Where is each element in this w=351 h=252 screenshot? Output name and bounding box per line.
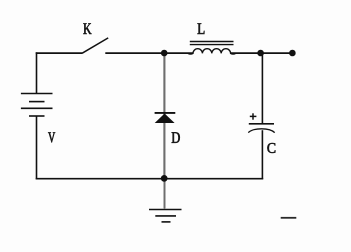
inductor L core line upper: [190, 41, 234, 43]
ground bar 2: [155, 215, 176, 217]
polarity plus sign horizontal: [250, 115, 257, 117]
node B junction dot: [257, 50, 264, 57]
wire diode branch vertical (soft): [163, 54, 166, 177]
label L: [198, 23, 205, 34]
label D: [172, 132, 180, 143]
inductor L core line lower: [190, 44, 234, 46]
inductor L winding: [188, 49, 236, 54]
wire inductor to output terminal: [231, 52, 293, 54]
ground bar 1: [149, 209, 182, 211]
capacitor C curved plate: [248, 129, 274, 133]
battery V long plate lower: [21, 107, 53, 109]
wire capacitor branch lower: [261, 130, 263, 179]
battery V long plate top: [21, 93, 53, 95]
wire capacitor branch upper: [261, 53, 263, 123]
wire battery bottom lead: [36, 116, 38, 179]
diode D triangle: [155, 114, 175, 124]
bottom junction dot: [161, 175, 168, 182]
label K: [83, 23, 91, 34]
wire bottom horizontal: [36, 178, 264, 180]
wire top-left horizontal: [36, 52, 82, 54]
wire left branch vertical (battery top lead): [36, 52, 38, 93]
wire switch to node A: [105, 52, 193, 54]
ground bar 3: [162, 221, 171, 223]
watermark dash: [281, 217, 297, 219]
capacitor C straight plate: [249, 123, 274, 125]
label V: [48, 132, 55, 142]
switch K blade: [82, 38, 108, 53]
output terminal dot: [289, 50, 296, 57]
battery V short plate bottom: [29, 115, 45, 117]
node A junction dot: [161, 50, 168, 57]
ground stem (soft): [163, 180, 165, 209]
polarity plus sign vertical: [252, 113, 254, 119]
diode D cathode bar: [155, 112, 176, 114]
label C: [267, 143, 275, 153]
battery V short plate upper: [29, 101, 45, 103]
